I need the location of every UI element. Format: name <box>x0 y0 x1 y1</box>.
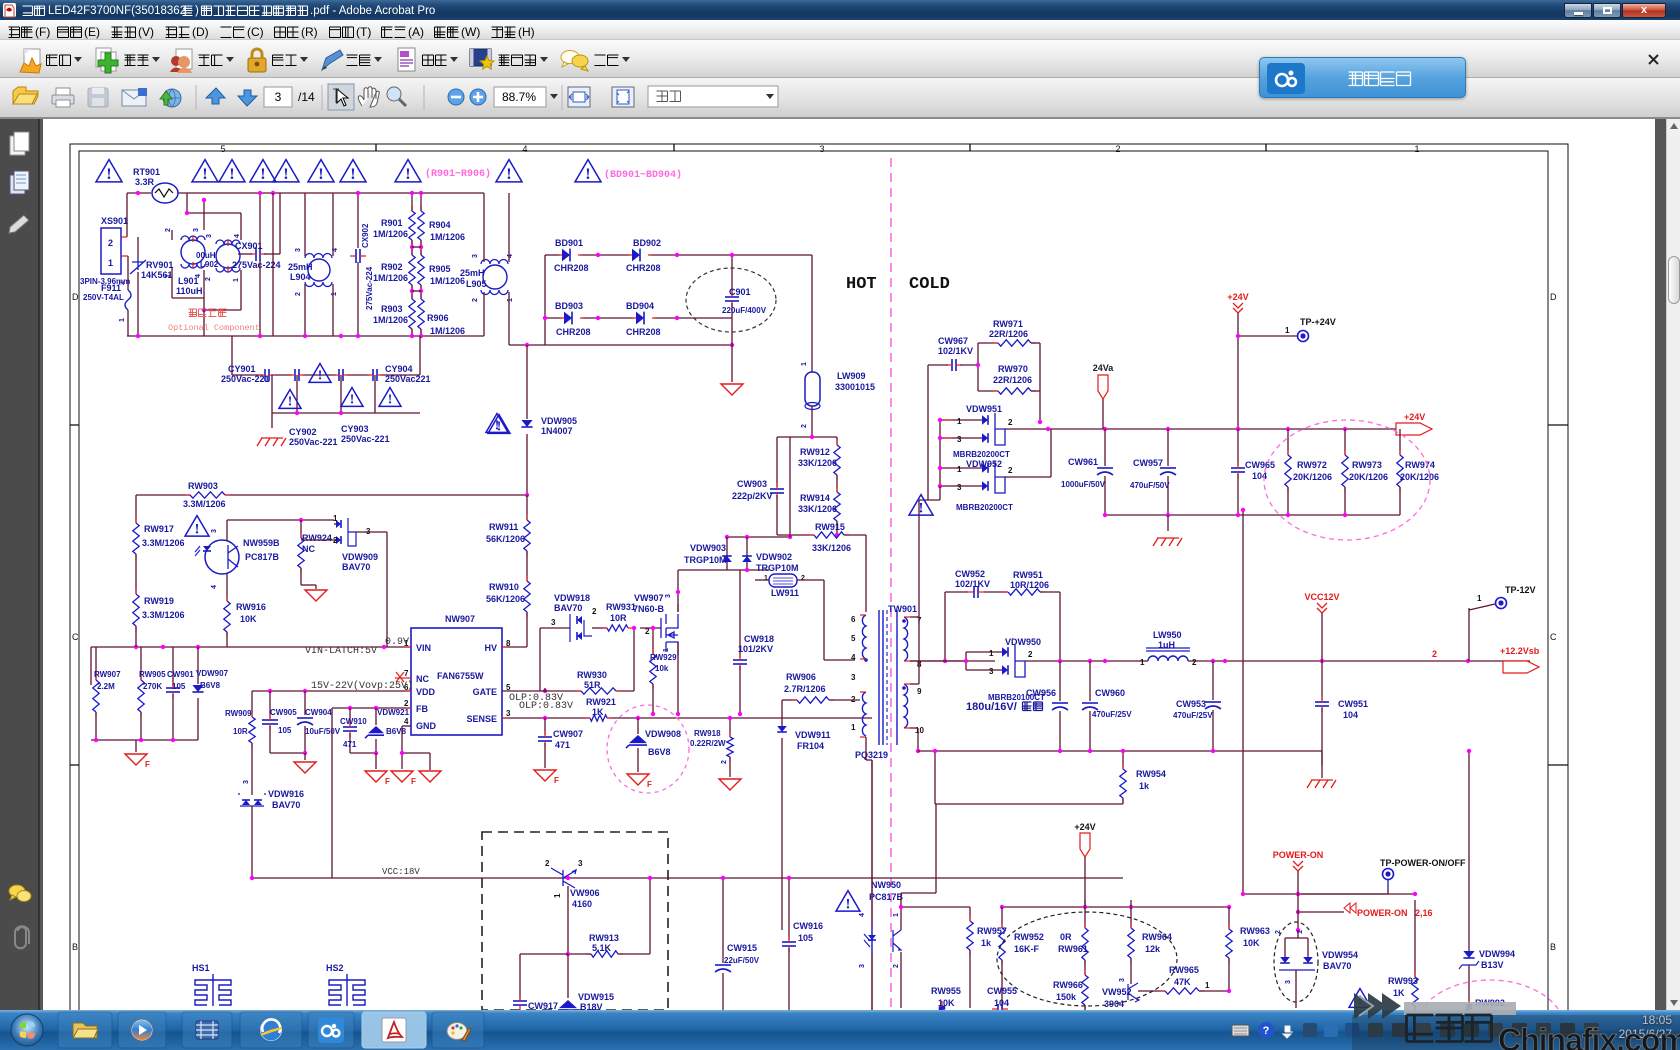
wire bridge to LW909 <box>811 255 813 372</box>
svg-text:2: 2 <box>1008 466 1013 475</box>
svg-text:RW973: RW973 <box>1352 460 1382 470</box>
svg-text:1: 1 <box>333 514 338 523</box>
svg-text:TP-12V: TP-12V <box>1505 585 1536 595</box>
svg-text:Chinafix.com: Chinafix.com <box>1498 1022 1680 1050</box>
svg-text:CW901: CW901 <box>167 670 194 679</box>
svg-text:2,16: 2,16 <box>1415 908 1433 918</box>
svg-text:D: D <box>1550 292 1557 302</box>
svg-text:HS2: HS2 <box>326 963 344 973</box>
resistor RW930 <box>581 688 616 694</box>
svg-text:2: 2 <box>295 292 302 296</box>
svg-text:F: F <box>145 760 150 769</box>
wire power-on rail <box>1002 906 1229 908</box>
svg-text:22uF/50V: 22uF/50V <box>724 956 760 965</box>
warning triangles row <box>96 160 122 182</box>
wire led cathode down <box>900 952 902 1008</box>
svg-text:BD904: BD904 <box>626 301 654 311</box>
svg-text:CW967: CW967 <box>938 336 968 346</box>
svg-text:(E): (E) <box>84 25 100 39</box>
svg-text:150k: 150k <box>1056 992 1077 1002</box>
wires L905 <box>483 193 485 262</box>
svg-text:250Vac221: 250Vac221 <box>385 374 431 384</box>
svg-text:!: ! <box>202 165 207 183</box>
svg-text:10R: 10R <box>610 613 627 623</box>
svg-text:VW952: VW952 <box>1102 987 1132 997</box>
svg-text:!: ! <box>106 165 111 183</box>
svg-text:TW901: TW901 <box>888 604 917 614</box>
svg-text:1M/1206: 1M/1206 <box>373 315 408 325</box>
svg-text:+24V: +24V <box>1227 292 1248 302</box>
svg-text:1: 1 <box>663 648 670 652</box>
wire opto top <box>226 520 228 541</box>
capacitor CW967 <box>927 365 929 500</box>
svg-text:1: 1 <box>801 362 808 366</box>
svg-text:LED42F3700NF(35018362: LED42F3700NF(35018362 <box>48 5 186 17</box>
svg-text:RW951: RW951 <box>1013 570 1043 580</box>
choke L902 <box>181 240 205 264</box>
resistor RW911 <box>526 495 528 520</box>
ground GND pin <box>391 771 413 782</box>
HOT COLD barrier dashed line <box>890 158 892 1008</box>
svg-text:1: 1 <box>1140 658 1145 667</box>
diode VDW902 <box>742 556 752 562</box>
svg-text:2: 2 <box>721 760 728 764</box>
svg-text:CW953: CW953 <box>1176 699 1206 709</box>
capacitor CW917 <box>513 1001 527 1005</box>
connector XS901 <box>101 228 121 274</box>
resistor R903 <box>409 299 415 329</box>
svg-text:250V-T4AL: 250V-T4AL <box>83 293 124 302</box>
ferrite bead LW911 <box>769 574 797 587</box>
svg-text:4: 4 <box>195 274 202 278</box>
svg-text:3: 3 <box>1119 978 1126 982</box>
svg-text:L902: L902 <box>200 260 219 269</box>
wire rectifier to xfmr pin7 <box>918 500 920 684</box>
svg-text:3: 3 <box>989 667 994 676</box>
svg-text:RW924: RW924 <box>302 533 332 543</box>
ground CY902 <box>271 413 273 428</box>
svg-text:3.3M/1206: 3.3M/1206 <box>142 538 185 548</box>
capacitor CW901 <box>166 688 180 692</box>
svg-text:3: 3 <box>193 228 200 232</box>
choke L905 <box>483 265 507 289</box>
svg-text:!: ! <box>846 896 851 912</box>
capacitor CY904 <box>373 369 377 381</box>
zener VDW921 <box>375 708 377 725</box>
resistor RW916 <box>226 574 228 601</box>
svg-text:HV: HV <box>484 643 497 653</box>
zener VDW907 <box>192 685 203 692</box>
svg-text:L905: L905 <box>466 279 487 289</box>
svg-text:B6V8: B6V8 <box>648 747 671 757</box>
ground 24V <box>1167 515 1169 531</box>
wire RW907 row <box>90 647 92 685</box>
inductor LW909 <box>805 372 820 406</box>
svg-text:TP-+24V: TP-+24V <box>1300 317 1336 327</box>
svg-text:NC: NC <box>302 544 315 554</box>
ground 12V <box>1307 780 1336 788</box>
transistor VW906 <box>551 868 576 888</box>
svg-text:BD902: BD902 <box>633 238 661 248</box>
resistor R902 <box>409 255 415 285</box>
svg-text:VDW952: VDW952 <box>966 459 1002 469</box>
svg-text:3: 3 <box>275 90 282 104</box>
svg-text:10K: 10K <box>240 614 257 624</box>
svg-text:RV901: RV901 <box>146 260 173 270</box>
svg-text:RW918: RW918 <box>694 729 721 738</box>
svg-text:RW915: RW915 <box>815 522 845 532</box>
dual diode VDW952 <box>982 463 988 473</box>
capacitor CY901 <box>265 369 269 381</box>
svg-text:2: 2 <box>545 859 550 868</box>
resistor RW965 <box>1138 990 1165 992</box>
wire zener gnd <box>350 752 376 754</box>
ground opto <box>300 568 302 585</box>
svg-text:LW909: LW909 <box>837 371 866 381</box>
warning <box>185 516 209 537</box>
svg-text:+24V: +24V <box>1074 822 1095 832</box>
svg-text:2: 2 <box>472 298 479 302</box>
wire bridge bottom <box>545 317 562 319</box>
svg-text:10R/1206: 10R/1206 <box>1010 580 1049 590</box>
resistor RW914 <box>836 475 838 492</box>
svg-text:!: ! <box>229 165 234 183</box>
svg-text:MBRB20200CT: MBRB20200CT <box>953 450 1010 459</box>
svg-text:56K/1206: 56K/1206 <box>486 534 525 544</box>
svg-text:CY901: CY901 <box>228 364 256 374</box>
resistor RW905 <box>138 680 144 712</box>
svg-text:NW950: NW950 <box>871 880 901 890</box>
svg-text:CW965: CW965 <box>1245 460 1275 470</box>
wire LW909 to snubber <box>811 406 813 437</box>
svg-text:B: B <box>72 942 78 952</box>
svg-text:POWER-ON: POWER-ON <box>1273 850 1324 860</box>
svg-text:CW916: CW916 <box>793 921 823 931</box>
wire pin10 return <box>934 751 936 804</box>
svg-text:CY904: CY904 <box>385 364 413 374</box>
wire VDD rail <box>252 690 411 692</box>
svg-text:VDW994: VDW994 <box>1479 949 1515 959</box>
svg-text:VDW905: VDW905 <box>541 416 577 426</box>
svg-text:270K: 270K <box>143 682 162 691</box>
warning <box>488 415 510 434</box>
wire 12V rail <box>1060 660 1148 662</box>
resistor RW954 <box>1122 751 1124 769</box>
mosfet VW907 <box>661 614 678 656</box>
diode BD903 <box>564 312 572 325</box>
svg-text:RW905: RW905 <box>139 670 166 679</box>
dual diode VDW909 <box>336 520 341 528</box>
svg-text:2: 2 <box>119 281 126 285</box>
svg-text:1: 1 <box>957 465 962 474</box>
wire secondary pin8 <box>910 660 995 662</box>
svg-text:VDW902: VDW902 <box>756 552 792 562</box>
warning mid <box>486 414 508 433</box>
wire gate <box>502 690 545 692</box>
svg-text:MBRB20200CT: MBRB20200CT <box>956 503 1013 512</box>
svg-text:NW959B: NW959B <box>243 538 280 548</box>
svg-text:B6V8: B6V8 <box>386 727 407 736</box>
svg-text:VDW954: VDW954 <box>1322 950 1358 960</box>
svg-text:!: ! <box>350 165 355 183</box>
svg-text:RW970: RW970 <box>998 364 1028 374</box>
svg-text:CW904: CW904 <box>305 708 332 717</box>
svg-text:470uF/50V: 470uF/50V <box>1130 481 1170 490</box>
svg-text:CHR208: CHR208 <box>626 327 661 337</box>
label optional component <box>189 309 197 317</box>
capacitor CW916 <box>788 878 790 940</box>
svg-text:1: 1 <box>119 318 126 322</box>
dual diode VDW950 <box>1002 647 1008 657</box>
net arrow 24Va <box>1098 375 1108 399</box>
svg-text:VDW921: VDW921 <box>377 708 410 717</box>
svg-text:CY902: CY902 <box>289 427 317 437</box>
svg-text:20K/1206: 20K/1206 <box>1400 472 1439 482</box>
svg-text:CHR208: CHR208 <box>626 263 661 273</box>
svg-text:RW921: RW921 <box>586 697 616 707</box>
svg-text:4: 4 <box>404 717 409 726</box>
svg-text:222p/2KV: 222p/2KV <box>732 491 773 501</box>
capacitor CX901 <box>256 247 260 261</box>
wire VDW909 out <box>356 531 387 533</box>
resistor RW952 <box>999 928 1005 960</box>
svg-text:!: ! <box>919 500 924 516</box>
capacitor CW915 <box>722 878 724 963</box>
resistor RW912 <box>836 437 838 445</box>
svg-text:(H): (H) <box>518 25 535 39</box>
svg-text:4: 4 <box>211 585 218 589</box>
svg-text:1: 1 <box>165 274 172 278</box>
wire FB net <box>332 707 411 709</box>
svg-text:LW950: LW950 <box>1153 630 1182 640</box>
resistor RW970 <box>977 343 979 391</box>
svg-text:1M/1206: 1M/1206 <box>373 273 408 283</box>
svg-text:GATE: GATE <box>473 687 497 697</box>
capacitor CW904 <box>304 691 306 715</box>
svg-text:3: 3 <box>578 859 583 868</box>
wire rectifier cathode rail <box>939 420 941 486</box>
fuse F911 <box>125 290 131 310</box>
svg-text:BAV70: BAV70 <box>554 603 582 613</box>
resistor R906 <box>418 299 424 329</box>
svg-text:1N4007: 1N4007 <box>541 426 573 436</box>
dashed service box <box>482 832 668 1010</box>
svg-text:C: C <box>1550 632 1557 642</box>
wire GND pin <box>402 725 411 727</box>
wire XS901 vertical feeds <box>126 193 128 237</box>
wire choke loop <box>186 193 188 213</box>
svg-text:VDW909: VDW909 <box>342 552 378 562</box>
wire snubber diodes <box>727 536 790 538</box>
svg-text:RW971: RW971 <box>993 319 1023 329</box>
svg-text:(C): (C) <box>247 25 264 39</box>
svg-text:NC: NC <box>416 674 429 684</box>
svg-text:1uH: 1uH <box>1158 640 1175 650</box>
svg-text:F: F <box>554 776 559 785</box>
wire secondary pin10 <box>910 727 918 729</box>
svg-text:3: 3 <box>506 709 511 718</box>
svg-text:10uF/50V: 10uF/50V <box>305 727 341 736</box>
diode VDW903 <box>722 556 732 562</box>
svg-text:PQ3219: PQ3219 <box>855 750 888 760</box>
svg-text:CW955: CW955 <box>987 986 1017 996</box>
svg-text:): ) <box>195 5 199 17</box>
svg-text:!: ! <box>318 368 323 383</box>
svg-text:(A): (A) <box>408 25 424 39</box>
svg-text:0.22R/2W: 0.22R/2W <box>690 739 726 748</box>
svg-text:RW912: RW912 <box>800 447 830 457</box>
wire 24V return rail <box>1105 514 1400 516</box>
svg-text:VCC:18V: VCC:18V <box>382 867 420 877</box>
svg-text:!: ! <box>388 392 393 407</box>
resistor R905 <box>418 255 424 285</box>
svg-text:1000uF/50V: 1000uF/50V <box>1061 480 1106 489</box>
wire sense rail <box>502 717 590 719</box>
svg-text:2: 2 <box>165 228 172 232</box>
diode BD904 <box>636 312 644 325</box>
svg-text:Optional Component: Optional Component <box>168 323 260 333</box>
varistor RV901 <box>130 258 146 274</box>
capacitor CW953 <box>1212 661 1214 700</box>
svg-text:SENSE: SENSE <box>466 714 497 724</box>
svg-text:1M/1206: 1M/1206 <box>430 232 465 242</box>
svg-text:16K-F: 16K-F <box>1014 944 1040 954</box>
capacitor CW960 <box>1089 661 1091 701</box>
svg-text:4: 4 <box>234 234 241 238</box>
svg-text:F: F <box>411 777 416 786</box>
svg-text:RW965: RW965 <box>1169 965 1199 975</box>
svg-text:4160: 4160 <box>572 899 592 909</box>
wire bridge left <box>544 255 546 345</box>
svg-text:NW907: NW907 <box>445 614 475 624</box>
black dashed ellipse power-on set <box>997 912 1177 1006</box>
wire VCC18 rail <box>252 877 1123 879</box>
svg-text:RW993: RW993 <box>1388 976 1418 986</box>
svg-text:3904: 3904 <box>1104 999 1124 1009</box>
svg-text:!: ! <box>506 165 511 183</box>
capacitor CW910 <box>349 708 351 725</box>
svg-text:R901: R901 <box>381 218 403 228</box>
resistor RW963 <box>1228 907 1230 929</box>
svg-text:RW931: RW931 <box>606 602 636 612</box>
svg-text:12k: 12k <box>1145 944 1161 954</box>
svg-text:(F): (F) <box>35 25 50 39</box>
svg-text:2: 2 <box>1008 418 1013 427</box>
wires R901-R906 ladder <box>411 193 413 211</box>
svg-text:VDW950: VDW950 <box>1005 637 1041 647</box>
resistor RW915 <box>836 521 838 535</box>
svg-text:PC817B: PC817B <box>245 552 280 562</box>
svg-text:471: 471 <box>555 740 570 750</box>
svg-text:RW914: RW914 <box>800 493 830 503</box>
svg-text:0R: 0R <box>1060 932 1072 942</box>
svg-text:RW974: RW974 <box>1405 460 1435 470</box>
sheet frame outer <box>70 144 1568 1050</box>
svg-text:CX902: CX902 <box>361 223 370 248</box>
capacitor CY901b <box>295 369 299 381</box>
svg-text:BD901: BD901 <box>555 238 583 248</box>
svg-text:VDW915: VDW915 <box>578 992 614 1002</box>
svg-text:2: 2 <box>1432 649 1437 659</box>
wire 24V rail <box>1048 428 1432 430</box>
svg-text:4: 4 <box>851 653 856 662</box>
svg-text:PC817B: PC817B <box>869 892 904 902</box>
resistor RW973 <box>1344 429 1346 455</box>
svg-text:F: F <box>385 777 390 786</box>
resistor RW961 <box>1084 900 1086 928</box>
capacitor CW905 <box>269 691 271 718</box>
frame row ticks and letters <box>70 424 79 426</box>
svg-text:2.7R/1206: 2.7R/1206 <box>784 684 826 694</box>
warning <box>309 364 331 383</box>
svg-text:RW909: RW909 <box>225 709 252 718</box>
svg-text:/14: /14 <box>298 90 315 104</box>
svg-text:3: 3 <box>851 673 856 682</box>
svg-text:1: 1 <box>507 298 514 302</box>
svg-text:(D): (D) <box>192 25 209 39</box>
svg-text:CW957: CW957 <box>1133 458 1163 468</box>
resistor RW971 <box>978 342 998 344</box>
svg-text:3: 3 <box>295 248 302 252</box>
resistor RW903 <box>190 492 225 498</box>
svg-text:1: 1 <box>989 649 994 658</box>
svg-text:RW917: RW917 <box>144 524 174 534</box>
optocoupler NW959B <box>205 540 239 574</box>
ground VDD caps <box>294 762 316 773</box>
svg-text:110uH: 110uH <box>176 286 203 296</box>
diode VDW911 <box>781 700 783 726</box>
svg-text:CW952: CW952 <box>955 569 985 579</box>
resistor RW913 <box>591 951 618 957</box>
svg-text:VDD: VDD <box>416 687 436 697</box>
svg-text:22R/1206: 22R/1206 <box>993 375 1032 385</box>
svg-text:2: 2 <box>801 424 808 428</box>
svg-text:3: 3 <box>206 234 213 238</box>
svg-text:47K: 47K <box>1174 977 1191 987</box>
svg-text:POWER-ON: POWER-ON <box>1357 908 1408 918</box>
dashed ellipse RW972-974 <box>1264 420 1430 540</box>
warning <box>1349 989 1371 1008</box>
svg-text:!: ! <box>585 165 590 183</box>
svg-text:20K/1206: 20K/1206 <box>1293 472 1332 482</box>
resistor RW931 <box>607 625 628 631</box>
svg-text:4: 4 <box>507 254 514 258</box>
svg-text:5.1K: 5.1K <box>592 943 612 953</box>
capacitor CW965 <box>1237 429 1239 466</box>
svg-text:105: 105 <box>172 682 186 691</box>
svg-text:2: 2 <box>1275 930 1282 934</box>
wire AC bottom rail <box>127 335 484 337</box>
zener VDW915 <box>567 954 569 998</box>
svg-text:C901: C901 <box>729 287 751 297</box>
svg-text:+12.2Vsb: +12.2Vsb <box>1500 646 1540 656</box>
inductor LW950 <box>1148 656 1188 661</box>
resistor RW924 <box>300 520 302 538</box>
svg-text:00uH: 00uH <box>196 251 216 260</box>
svg-text:105: 105 <box>278 726 292 735</box>
svg-text:4: 4 <box>522 144 527 154</box>
svg-text:!: ! <box>497 419 502 434</box>
sheet frame inner <box>79 151 1548 1050</box>
svg-text:OLP:0.83V: OLP:0.83V <box>519 701 573 712</box>
svg-text:2: 2 <box>1115 144 1120 154</box>
svg-text:3: 3 <box>243 780 250 784</box>
svg-text:24Va: 24Va <box>1093 363 1115 373</box>
svg-text:1: 1 <box>1285 326 1290 335</box>
svg-text:3: 3 <box>551 618 556 627</box>
svg-text:1: 1 <box>957 417 962 426</box>
svg-text:25mH: 25mH <box>288 262 313 272</box>
